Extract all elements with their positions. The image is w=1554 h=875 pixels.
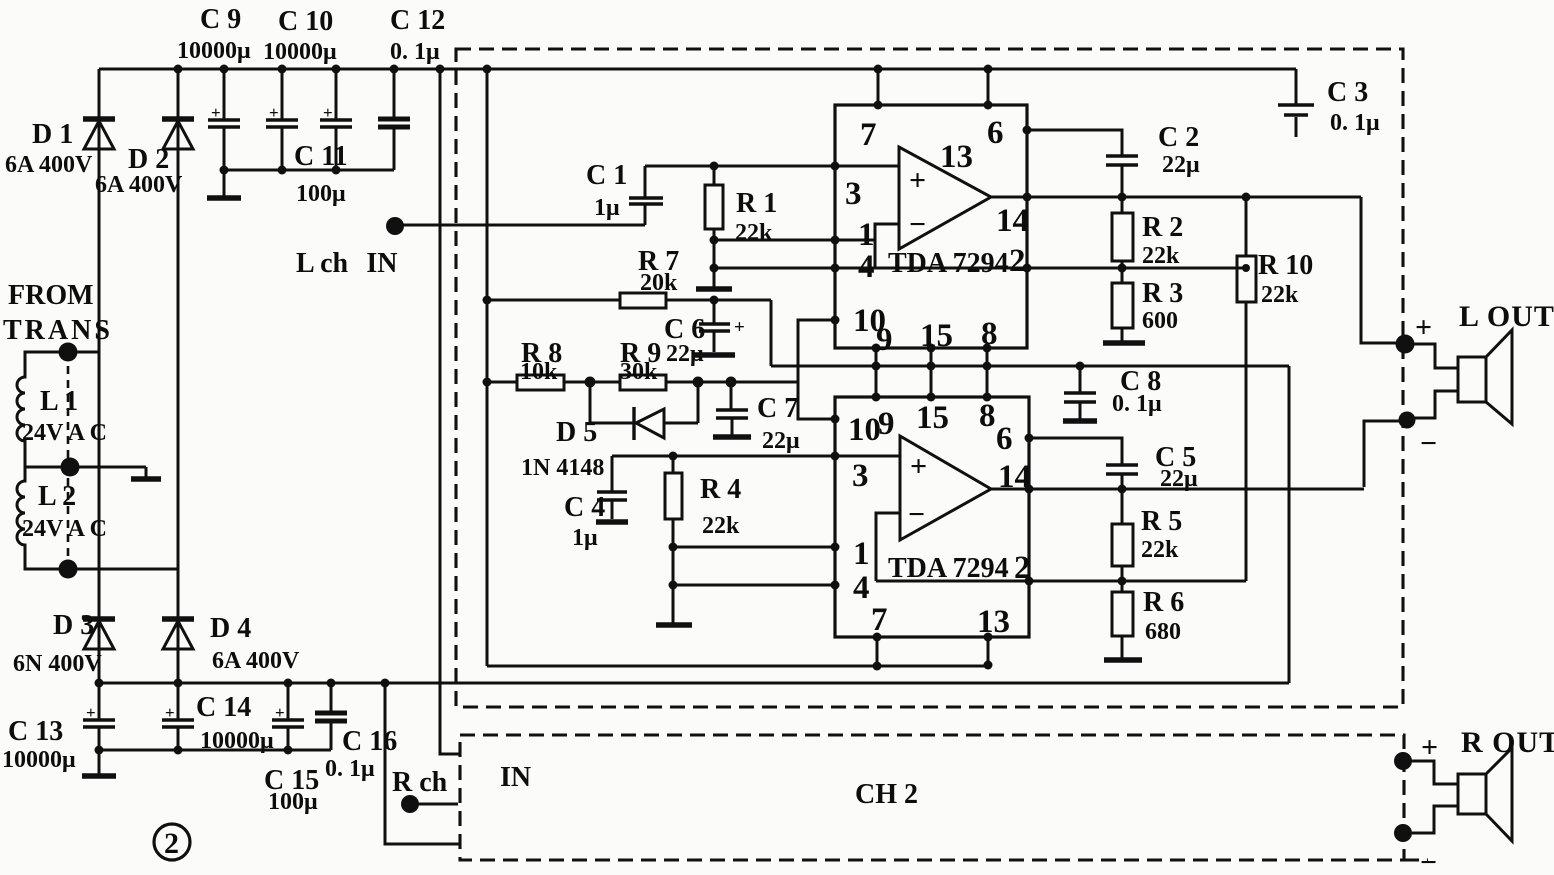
- svg-text:+: +: [910, 450, 927, 483]
- svg-text:D 1: D 1: [32, 119, 73, 150]
- U2 inverting stub: [876, 513, 900, 581]
- op-amp U1 TDA7294 box: [835, 105, 1027, 348]
- wire R ch to CH2: [418, 803, 458, 806]
- junction dots rail A: [872, 362, 1085, 371]
- op-amp U1 triangle: [899, 147, 991, 249]
- wire U1 pin3 row: [645, 165, 899, 168]
- svg-text:C 10: C 10: [278, 6, 333, 37]
- wire U1 pin6 to C2: [1027, 130, 1122, 155]
- wire inner bottom +V run to U2 pins 7 13: [487, 665, 991, 668]
- capacitor C14: [162, 683, 194, 750]
- wire filter mid bus: [224, 169, 394, 172]
- figure number 2: [154, 824, 190, 860]
- svg-text:9: 9: [876, 322, 893, 358]
- svg-text:−: −: [1420, 846, 1437, 875]
- dashed box CH2: [460, 735, 1404, 860]
- svg-text:1: 1: [858, 217, 875, 253]
- svg-text:C 16: C 16: [342, 726, 397, 757]
- svg-text:0. 1μ: 0. 1μ: [1112, 391, 1162, 417]
- svg-text:C 9: C 9: [200, 4, 241, 35]
- node L ch IN: [386, 217, 404, 235]
- svg-text:C 14: C 14: [196, 692, 251, 723]
- svg-text:1: 1: [853, 536, 870, 572]
- wire top tap to D1 branch: [68, 351, 99, 354]
- capacitor C11: [320, 69, 352, 170]
- wire L ch input to C1: [395, 224, 645, 227]
- svg-text:22μ: 22μ: [1162, 152, 1200, 178]
- ground symbol under R4: [656, 585, 692, 625]
- op-amp U2 triangle: [900, 436, 991, 540]
- svg-text:+: +: [269, 103, 279, 122]
- svg-text:D 3: D 3: [53, 610, 94, 641]
- svg-text:100μ: 100μ: [268, 789, 318, 815]
- svg-text:30k: 30k: [620, 359, 658, 385]
- junction dots -V bus: [95, 679, 390, 688]
- junction R7 left: [483, 296, 492, 305]
- junction R1 bottom: [710, 236, 719, 245]
- svg-text:22k: 22k: [735, 220, 773, 246]
- junction dots bottom filter bus: [95, 746, 293, 755]
- junction dots pin4 row: [710, 264, 1251, 273]
- inductor L1 winding: [17, 352, 68, 467]
- node L OUT minus: [1399, 412, 1416, 429]
- ground symbol under C9: [207, 170, 241, 198]
- svg-text:1μ: 1μ: [594, 195, 620, 221]
- capacitor C4: [597, 456, 627, 519]
- wire U2 pin2 feedback row: [876, 302, 1246, 581]
- ground symbol under C13: [82, 750, 116, 776]
- svg-text:R 1: R 1: [736, 188, 777, 219]
- U1 supply stubs pins 7 and 6: [874, 69, 993, 110]
- capacitor C12: [378, 69, 410, 170]
- wire U2 pin3 row: [612, 455, 899, 458]
- svg-text:C 4: C 4: [564, 492, 605, 523]
- svg-text:680: 680: [1145, 619, 1181, 645]
- svg-text:C 2: C 2: [1158, 122, 1199, 153]
- junction U2 pin6: [1025, 434, 1034, 443]
- svg-text:C 13: C 13: [8, 716, 63, 747]
- resistor R8: [487, 375, 590, 390]
- junction dots U2 pin1 row: [669, 543, 840, 552]
- svg-text:+: +: [211, 103, 221, 122]
- svg-text:+: +: [86, 703, 96, 722]
- svg-text:R 3: R 3: [1142, 278, 1183, 309]
- svg-text:10000μ: 10000μ: [263, 39, 337, 65]
- svg-text:9: 9: [878, 406, 895, 442]
- svg-text:R 6: R 6: [1143, 587, 1184, 618]
- U1 inverting stub: [875, 224, 899, 268]
- svg-text:TRANS: TRANS: [3, 315, 113, 346]
- wire U2 pins 7 13 supply stubs: [873, 633, 993, 671]
- svg-text:−: −: [1420, 427, 1437, 460]
- wire -V feed to CH2: [385, 683, 460, 844]
- resistor R9: [590, 375, 798, 390]
- node R ch input: [401, 795, 419, 813]
- junction dots U2 pin2 row: [1025, 577, 1127, 586]
- junction dots mid bus: [220, 166, 341, 175]
- svg-text:10: 10: [848, 412, 881, 448]
- capacitor C3: [1278, 69, 1314, 137]
- svg-text:IN: IN: [500, 762, 531, 793]
- svg-text:24V A C: 24V A C: [22, 516, 107, 542]
- resistor R1: [705, 166, 723, 240]
- resistor R7: [487, 293, 771, 308]
- svg-text:6A 400V: 6A 400V: [95, 172, 183, 198]
- svg-text:24V A C: 24V A C: [22, 420, 107, 446]
- svg-text:+: +: [734, 317, 745, 338]
- svg-text:D 2: D 2: [128, 144, 169, 175]
- capacitor C7: [716, 382, 748, 435]
- svg-text:R 2: R 2: [1142, 212, 1183, 243]
- svg-text:10000μ: 10000μ: [2, 747, 76, 773]
- wire U1 to U2 pins 9 15 8 stubs: [872, 344, 992, 402]
- svg-text:R ch: R ch: [392, 767, 448, 798]
- svg-text:C 1: C 1: [586, 160, 627, 191]
- diode D4: [162, 618, 194, 683]
- junction R8 left: [483, 378, 492, 387]
- wire U2 pin4 row: [673, 584, 835, 587]
- junction dots on +V rail: [174, 65, 993, 74]
- capacitor C10: [266, 69, 298, 170]
- svg-text:10k: 10k: [520, 359, 558, 385]
- svg-text:0. 1μ: 0. 1μ: [390, 39, 440, 65]
- ground symbol under R6: [1104, 657, 1142, 663]
- wire R7 down to -V rail A: [770, 300, 773, 366]
- capacitor C16: [315, 683, 347, 750]
- svg-text:C 7: C 7: [757, 393, 798, 424]
- svg-text:C 12: C 12: [390, 5, 445, 36]
- wire U1 pin4 / pin2 feedback row: [714, 267, 1246, 270]
- transformer core dashed: [67, 352, 70, 569]
- junction U1 pin6: [1023, 126, 1032, 135]
- svg-text:4: 4: [853, 570, 870, 606]
- junction dots U2 pin3 row: [669, 452, 840, 461]
- svg-text:0. 1μ: 0. 1μ: [325, 756, 375, 782]
- wire +V feed to CH2: [440, 69, 460, 754]
- inductor L2 winding: [17, 467, 68, 569]
- capacitor C5: [1106, 465, 1138, 489]
- node bottom tap: [59, 560, 78, 579]
- svg-text:8: 8: [979, 398, 996, 434]
- label FROM TRANS: [3, 280, 113, 346]
- wire U2 pin6 to C5: [1029, 438, 1122, 464]
- svg-text:3: 3: [852, 458, 869, 494]
- ground symbol center tap: [131, 476, 161, 482]
- svg-text:+: +: [165, 703, 175, 722]
- wire U1 output pin 14 row: [991, 196, 1361, 199]
- svg-text:TDA 7294: TDA 7294: [888, 248, 1009, 279]
- wire U2 output pin 14 row: [991, 488, 1364, 491]
- ground symbol under C4: [596, 519, 628, 525]
- wire L OUT minus to U2 output: [1364, 421, 1399, 487]
- svg-text:+: +: [909, 164, 926, 197]
- svg-text:1N 4148: 1N 4148: [521, 455, 604, 481]
- wire -V bottom bus: [99, 682, 1289, 685]
- svg-text:R 4: R 4: [700, 474, 741, 505]
- svg-text:−: −: [909, 208, 926, 241]
- ground symbol under R3: [1103, 340, 1145, 346]
- node FROM TRANS top tap: [59, 343, 78, 362]
- svg-text:+: +: [1421, 731, 1438, 764]
- svg-text:0. 1μ: 0. 1μ: [1330, 110, 1380, 136]
- resistor R10: [1237, 197, 1256, 580]
- svg-text:6A 400V: 6A 400V: [5, 152, 93, 178]
- capacitor C15: [272, 683, 304, 750]
- svg-text:+: +: [275, 703, 285, 722]
- svg-text:R 10: R 10: [1258, 250, 1313, 281]
- svg-text:7: 7: [871, 602, 888, 638]
- capacitor C1: [629, 166, 663, 225]
- junction dots U2 pin4 row: [669, 581, 840, 590]
- dashed box CH1: [456, 49, 1403, 707]
- svg-text:13: 13: [977, 604, 1010, 640]
- wire +V drop to mute/stby network: [486, 69, 489, 666]
- speaker L OUT: [1413, 330, 1512, 424]
- svg-text:1μ: 1μ: [572, 525, 598, 551]
- node R OUT plus: [1394, 752, 1412, 770]
- capacitor C2: [1106, 156, 1138, 197]
- ground symbol under C8: [1063, 418, 1097, 424]
- wire bottom filter bus: [99, 749, 331, 752]
- svg-text:13: 13: [940, 139, 973, 175]
- capacitor C6: [699, 300, 745, 352]
- diode D1: [83, 69, 115, 618]
- wire U1 pin1 row: [714, 239, 875, 242]
- svg-text:D 4: D 4: [210, 613, 251, 644]
- resistor R6: [1112, 581, 1133, 658]
- junction U1 pin10: [831, 316, 840, 325]
- wire +V top rail: [99, 68, 1296, 71]
- svg-text:TDA 7294: TDA 7294: [888, 553, 1009, 584]
- svg-text:22μ: 22μ: [762, 428, 800, 454]
- resistor R3: [1112, 268, 1133, 341]
- resistor R4: [665, 456, 682, 547]
- capacitor C13: [83, 683, 115, 750]
- junction dots U2 output row: [1025, 485, 1127, 494]
- diode D3: [83, 618, 115, 683]
- wire rail A down to -V bus: [1288, 366, 1291, 683]
- wire bottom tap to D2/D4 line: [68, 568, 178, 571]
- wire R4 bottom to pin4 row: [672, 547, 675, 585]
- svg-text:6N 400V: 6N 400V: [13, 651, 102, 677]
- wire center tap: [25, 467, 146, 477]
- capacitor C8: [1064, 366, 1096, 419]
- ground symbol under C6: [693, 352, 735, 358]
- svg-text:+: +: [1415, 311, 1432, 344]
- ground symbol under C7: [713, 434, 751, 440]
- svg-text:3: 3: [845, 176, 862, 212]
- diode D5 bypass loop: [590, 382, 698, 440]
- node center tap: [61, 458, 80, 477]
- svg-text:D 5: D 5: [556, 417, 597, 448]
- svg-text:+: +: [323, 103, 333, 122]
- svg-text:600: 600: [1142, 308, 1178, 334]
- svg-text:22k: 22k: [1142, 243, 1180, 269]
- svg-text:2: 2: [1009, 243, 1026, 279]
- svg-text:C 3: C 3: [1327, 77, 1368, 108]
- svg-text:22k: 22k: [1141, 537, 1179, 563]
- wire -V rail A: [771, 365, 1289, 368]
- svg-text:L OUT: L OUT: [1459, 300, 1554, 333]
- svg-text:6A 400V: 6A 400V: [212, 648, 300, 674]
- op-amp U2 TDA7294 box: [835, 397, 1029, 637]
- wire mute link U1 pin10 to U2 pin10: [798, 320, 835, 419]
- svg-text:15: 15: [916, 400, 949, 436]
- svg-text:CH 2: CH 2: [855, 779, 918, 810]
- svg-text:22k: 22k: [1261, 282, 1299, 308]
- svg-text:7: 7: [860, 117, 877, 153]
- svg-text:−: −: [908, 498, 925, 531]
- svg-text:100μ: 100μ: [296, 181, 346, 207]
- junction dots pin3 row: [710, 162, 840, 171]
- speaker R OUT: [1411, 748, 1512, 841]
- svg-text:6: 6: [987, 115, 1004, 151]
- resistor R5: [1112, 489, 1133, 581]
- svg-text:L ch IN: L ch IN: [296, 248, 397, 279]
- capacitor C9: [208, 69, 240, 170]
- svg-text:6: 6: [996, 421, 1013, 457]
- junction C6 tap: [710, 296, 719, 305]
- node R OUT minus: [1394, 824, 1412, 842]
- node L OUT plus: [1396, 335, 1415, 354]
- svg-text:8: 8: [981, 316, 998, 352]
- svg-text:20k: 20k: [640, 270, 678, 296]
- wire U2 pin1 row: [673, 546, 835, 549]
- svg-text:15: 15: [920, 318, 953, 354]
- svg-text:22k: 22k: [702, 513, 740, 539]
- junction dots stby row: [585, 377, 737, 388]
- svg-text:4: 4: [858, 249, 875, 285]
- ground symbol under R1: [696, 268, 732, 289]
- wire output to L OUT plus: [1361, 197, 1397, 343]
- svg-text:2: 2: [164, 827, 179, 860]
- svg-text:14: 14: [996, 203, 1029, 239]
- svg-text:FROM: FROM: [8, 280, 94, 311]
- wire R1 to pin4 row: [713, 240, 716, 268]
- svg-text:R 5: R 5: [1141, 506, 1182, 537]
- svg-text:L 2: L 2: [38, 481, 76, 512]
- junction dots output row: [1023, 193, 1251, 202]
- svg-text:10000μ: 10000μ: [177, 38, 251, 64]
- junction U2 pin10: [831, 415, 840, 424]
- resistor R2: [1112, 197, 1133, 268]
- svg-text:22μ: 22μ: [1160, 466, 1198, 492]
- svg-text:L 1: L 1: [40, 386, 78, 417]
- diode D2: [162, 69, 194, 618]
